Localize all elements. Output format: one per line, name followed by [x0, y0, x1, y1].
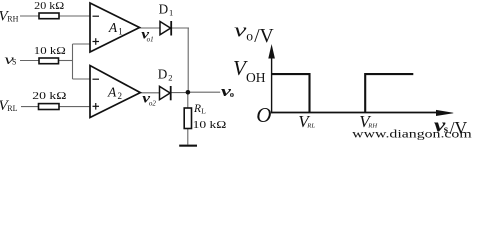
svg-text:D: D	[159, 2, 169, 17]
svg-text:S: S	[12, 58, 16, 67]
svg-text:o: o	[230, 89, 234, 99]
svg-text:www.diangon.com: www.diangon.com	[352, 126, 472, 140]
svg-text:OH: OH	[246, 70, 266, 85]
svg-text:R: R	[193, 103, 201, 115]
svg-text:D: D	[158, 67, 168, 82]
svg-text:RL: RL	[7, 104, 17, 113]
svg-text:RL: RL	[306, 123, 315, 130]
svg-text:v: v	[234, 21, 247, 41]
svg-text:o2: o2	[149, 100, 157, 108]
svg-text:o: o	[246, 29, 253, 44]
svg-text:/V: /V	[254, 26, 274, 47]
svg-text:10 kΩ: 10 kΩ	[193, 120, 227, 131]
svg-text:A: A	[107, 84, 117, 99]
svg-text:A: A	[108, 20, 118, 35]
svg-text:L: L	[201, 107, 206, 116]
svg-text:RH: RH	[7, 15, 18, 24]
svg-text:20 kΩ: 20 kΩ	[34, 1, 64, 12]
svg-text:1: 1	[169, 8, 173, 18]
svg-text:2: 2	[118, 91, 123, 101]
svg-text:10 kΩ: 10 kΩ	[34, 46, 66, 57]
svg-text:1: 1	[118, 26, 123, 36]
svg-text:O: O	[256, 103, 271, 127]
svg-text:20 kΩ: 20 kΩ	[32, 91, 66, 102]
svg-text:o1: o1	[147, 36, 154, 44]
svg-text:2: 2	[168, 73, 172, 83]
